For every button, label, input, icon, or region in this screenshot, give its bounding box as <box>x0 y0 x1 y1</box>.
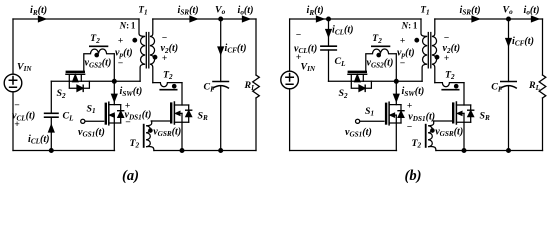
transistor S1 (main switch, circuit a) <box>81 102 124 125</box>
node T1 primary polarity dot <box>133 38 137 42</box>
inductor T2 (gate winding of S2 clamp switch, circuit b) <box>366 33 396 72</box>
node T1 secondary polarity dot <box>153 55 157 59</box>
node SR source to rail junction <box>180 149 184 153</box>
svg-text:−: − <box>118 58 124 69</box>
resistor RL (load) <box>244 19 260 151</box>
capacitor CL (clamp capacitor) <box>45 81 74 150</box>
transistor S2 (active clamp switch, circuit a) <box>56 72 89 100</box>
capacitor CL (clamp capacitor), circuit b <box>321 19 346 81</box>
transformer T1 core <box>428 33 431 68</box>
svg-text:+: + <box>118 36 124 47</box>
node switch-node junction, circuit a <box>112 79 116 83</box>
source VIN, circuit b <box>281 19 316 151</box>
svg-text:−: − <box>14 100 20 111</box>
wire S2 conductor (clamp node to switch node) <box>51 80 140 82</box>
node T1 primary polarity dot <box>415 38 419 42</box>
transistor SR (synchronous rectifier, circuit a) <box>171 102 208 124</box>
label -vCL(t)+ <box>12 100 35 130</box>
label -vCL(t)+ circuit b <box>294 30 317 64</box>
capacitor CF (output filter), circuit b <box>491 19 516 151</box>
svg-text:−: − <box>125 117 131 128</box>
transformer T1 primary winding, circuit a <box>139 19 145 81</box>
transformer T1 secondary winding, circuit b <box>432 19 437 83</box>
wire top rail left (input to T1 primary) <box>13 18 139 20</box>
wire S1 source down to rail <box>113 123 115 151</box>
svg-text:−: − <box>400 58 406 69</box>
node CL to top rail junction <box>327 17 331 21</box>
svg-text:N: 1: N: 1 <box>119 20 136 30</box>
current label iR(t) with arrow <box>30 5 47 22</box>
wire bottom rail left (primary ground) <box>13 150 115 152</box>
svg-text:−: − <box>296 30 302 41</box>
transformer T1 secondary winding, circuit a <box>150 19 155 83</box>
current label iR(t) with arrow, circuit b <box>307 5 324 22</box>
node SR source to rail junction, circuit b <box>462 149 466 153</box>
current label iSW(t) with arrow, circuit b <box>394 86 425 101</box>
wire S2 conductor (clamp node to switch node), circuit b <box>329 80 423 82</box>
node CL to bottom rail junction <box>49 149 53 153</box>
label +vDS1(t)- <box>407 101 436 133</box>
inductor T2 (SR gate-drive winding, circuit a) <box>129 121 153 151</box>
wire switch node vertical (T2 right lead down to S1 drain), circuit b <box>395 54 397 105</box>
svg-text:iR(t): iR(t) <box>30 5 47 17</box>
svg-text:(b): (b) <box>405 168 422 184</box>
current label iCL(t) with arrow, circuit b <box>326 25 354 37</box>
capacitor CF (output filter) <box>204 19 229 151</box>
inductor T2 (secondary-side winding in series with SR), circuit b <box>435 69 464 89</box>
current label iSR(t) with arrow <box>178 5 199 22</box>
node switch-node junction, circuit b <box>394 79 398 83</box>
svg-text:iR(t): iR(t) <box>307 5 324 17</box>
svg-text:io(t): io(t) <box>238 5 254 17</box>
svg-text:−: − <box>444 33 450 44</box>
node CF to bottom rail junction <box>219 149 223 153</box>
label -v2(t)+ secondary voltage <box>161 33 179 64</box>
current label io(t) with arrow <box>238 5 254 22</box>
wire SR gate lead <box>433 120 453 122</box>
wire bottom rail left (primary ground), circuit b <box>290 150 397 152</box>
wire SR source lead down to rail <box>463 122 465 150</box>
inductor T2 (secondary-side winding in series with SR), circuit a <box>153 69 182 89</box>
wire SR gate lead <box>151 120 171 122</box>
svg-text:+: + <box>407 101 413 112</box>
label +vp(t)- primary voltage <box>115 36 133 69</box>
current label iCF(t) with arrow, circuit b <box>506 36 534 48</box>
current label iSW(t) with arrow, circuit a <box>112 86 143 101</box>
resistor RL (load), circuit b <box>528 19 546 151</box>
current label iSR(t) with arrow, circuit b <box>460 5 481 22</box>
inductor T2 (SR gate-drive winding, circuit b) <box>411 121 435 151</box>
wire bottom rail right (secondary ground), circuit b <box>436 150 543 152</box>
source VIN <box>4 19 32 151</box>
label -v2(t)+ secondary voltage <box>443 33 461 64</box>
transistor SR (synchronous rectifier, circuit b) <box>453 102 490 124</box>
node output rail / CF junction, circuit b <box>507 17 511 21</box>
svg-text:+: + <box>14 119 20 130</box>
svg-text:+: + <box>400 36 406 47</box>
wire top rail left (input to T1 primary), circuit b <box>290 18 421 20</box>
svg-text:io(t): io(t) <box>524 5 540 17</box>
inductor T2 (gate winding of S2 clamp switch, circuit a) <box>84 33 114 72</box>
node output rail / CF junction <box>219 17 223 21</box>
wire SR source lead down to rail <box>181 122 183 150</box>
transformer T1 core <box>146 33 149 68</box>
svg-text:+: + <box>296 52 302 63</box>
wire S1 source down to rail <box>395 123 397 151</box>
label +vp(t)- primary voltage <box>397 36 415 69</box>
transformer T1 primary winding, circuit b <box>421 19 427 81</box>
wire switch node vertical (T2 right lead down to S1 drain), circuit a <box>113 54 115 105</box>
wire SR drain lead <box>181 83 183 105</box>
label +vDS1(t)- <box>125 101 152 129</box>
svg-text:−: − <box>407 121 413 132</box>
svg-text:N: 1: N: 1 <box>401 20 418 30</box>
svg-text:(a): (a) <box>122 168 139 184</box>
svg-text:−: − <box>162 33 168 44</box>
wire top rail right (secondary to output) <box>153 18 256 20</box>
transistor S1 (main switch, circuit b) <box>356 102 405 125</box>
svg-text:+: + <box>444 53 450 64</box>
wire bottom rail right (secondary ground) <box>154 150 256 152</box>
transistor S2 (active clamp switch, circuit b) <box>338 72 371 100</box>
current label iCL(t) with arrow <box>28 125 54 146</box>
current label iCF(t) with arrow <box>218 43 246 55</box>
svg-text:+: + <box>162 53 168 64</box>
current label io(t) with arrow, circuit b <box>524 5 540 22</box>
wire top rail right (secondary to output), circuit b <box>435 18 543 20</box>
node T1 secondary polarity dot <box>435 55 439 59</box>
node CF to bottom rail junction, circuit b <box>507 149 511 153</box>
wire SR drain lead <box>463 83 465 105</box>
